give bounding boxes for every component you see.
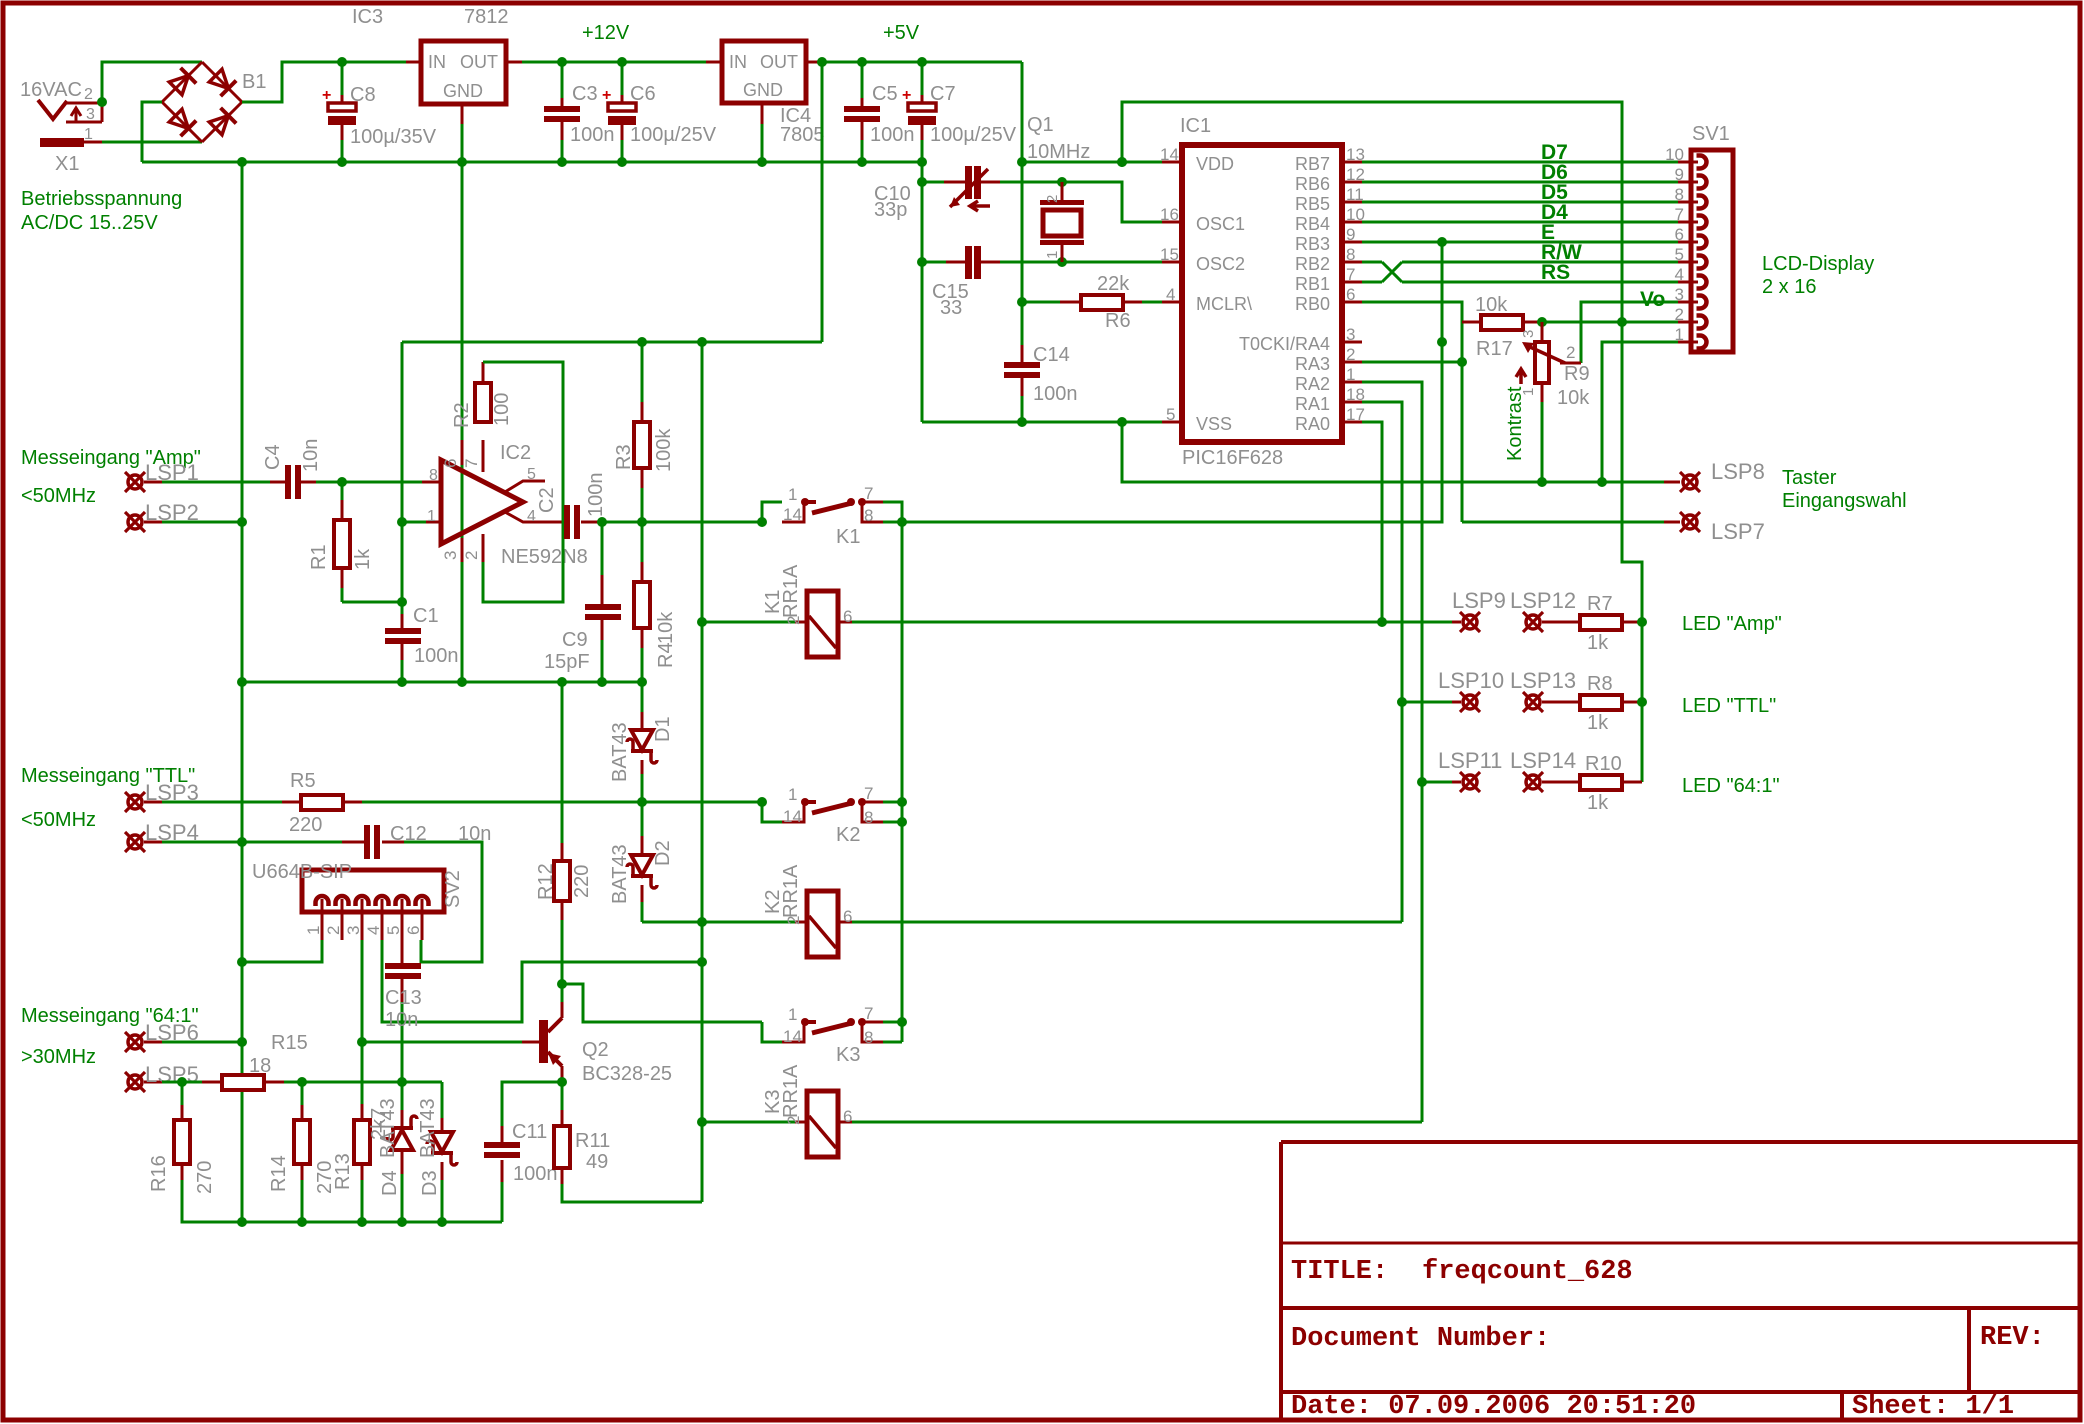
svg-text:TITLE:: TITLE: xyxy=(1291,1257,1388,1287)
svg-text:1: 1 xyxy=(1044,251,1061,259)
relay contact K1 xyxy=(762,502,782,522)
capacitor C3 100n xyxy=(557,57,567,67)
svg-text:+5V: +5V xyxy=(883,22,920,44)
wire C10 row OSC1 net xyxy=(922,181,944,184)
wire RA1 down xyxy=(1362,402,1402,922)
regulator IC4 7805 xyxy=(722,41,806,103)
wire LSP5 to clamp row xyxy=(162,1081,202,1084)
wire IC4 GND to rail xyxy=(761,103,764,124)
svg-text:RR1A: RR1A xyxy=(780,1064,802,1118)
resistor R4 10k xyxy=(641,522,644,562)
resistor R16 270 xyxy=(181,1082,184,1105)
wire bias vertical to IC2 pin1 xyxy=(401,342,404,602)
svg-text:Date: 07.09.2006 20:51:20: Date: 07.09.2006 20:51:20 xyxy=(1291,1392,1696,1422)
svg-text:C3: C3 xyxy=(572,83,598,105)
op-amp IC2 NE592N8 xyxy=(441,460,523,544)
capacitor C8 100u/35V xyxy=(337,57,347,67)
svg-text:1k: 1k xyxy=(1587,712,1609,734)
svg-text:Taster: Taster xyxy=(1782,467,1837,489)
resistor R17 10k xyxy=(1462,321,1481,324)
LED Amp row LSP9 xyxy=(1382,621,1452,624)
svg-text:3: 3 xyxy=(1520,330,1537,338)
svg-text:100n: 100n xyxy=(414,645,459,667)
svg-text:10n: 10n xyxy=(385,1009,418,1031)
svg-text:1k: 1k xyxy=(352,548,374,570)
svg-text:IN: IN xyxy=(729,52,747,72)
svg-text:R10: R10 xyxy=(1585,753,1622,775)
GND rail top xyxy=(142,161,922,164)
wire SV2 pin4 supply jog xyxy=(382,940,702,1022)
wire +5V down to VDD xyxy=(1022,62,1162,162)
wire SV1 pin2 +5V net xyxy=(1542,321,1678,324)
svg-text:BC328-25: BC328-25 xyxy=(582,1063,672,1085)
wire Vo net SV1 pin3 to pot wiper xyxy=(1581,302,1678,363)
svg-text:Betriebsspannung: Betriebsspannung xyxy=(21,188,182,210)
capacitor C6 100u/25V xyxy=(617,57,627,67)
svg-text:RS: RS xyxy=(1541,261,1570,284)
svg-text:RA3: RA3 xyxy=(1295,354,1330,374)
svg-text:R3: R3 xyxy=(613,444,635,470)
svg-text:RB4: RB4 xyxy=(1295,214,1330,234)
svg-text:10MHz: 10MHz xyxy=(1027,141,1090,163)
svg-text:LSP10: LSP10 xyxy=(1438,668,1504,693)
svg-text:GND: GND xyxy=(743,80,783,100)
wire D7 net RB7 to SV1 pin10 xyxy=(1362,161,1678,164)
svg-text:Sheet: 1/1: Sheet: 1/1 xyxy=(1852,1392,2014,1422)
svg-text:14: 14 xyxy=(1160,145,1179,164)
svg-text:100n: 100n xyxy=(870,124,915,146)
svg-text:<50MHz: <50MHz xyxy=(21,485,96,507)
wire X1 pin1 to bridge AC2 xyxy=(102,141,202,144)
svg-text:LSP7: LSP7 xyxy=(1711,519,1765,544)
svg-text:7: 7 xyxy=(864,484,873,503)
svg-text:BAT43: BAT43 xyxy=(417,1098,439,1158)
wire LSP1 to C4 xyxy=(162,481,270,484)
svg-text:15: 15 xyxy=(1160,245,1179,264)
svg-text:C6: C6 xyxy=(630,83,656,105)
IC2 pin3 pin2 stubs xyxy=(461,538,464,562)
title block frame xyxy=(1281,1140,2079,1144)
svg-text:D2: D2 xyxy=(652,840,674,866)
svg-text:3: 3 xyxy=(86,106,95,123)
wire bridge DC+ to +raw rail xyxy=(242,62,406,102)
diode D1 BAT43 xyxy=(641,682,644,712)
svg-text:OUT: OUT xyxy=(760,52,798,72)
svg-text:49: 49 xyxy=(586,1151,608,1173)
svg-text:2: 2 xyxy=(1566,343,1575,362)
capacitor C7 100u/25V xyxy=(917,57,927,67)
svg-text:10n: 10n xyxy=(300,439,322,472)
svg-text:RA0: RA0 xyxy=(1295,414,1330,434)
svg-text:Kontrast: Kontrast xyxy=(1504,386,1526,461)
svg-text:9: 9 xyxy=(1346,225,1355,244)
svg-text:LSP9: LSP9 xyxy=(1452,588,1506,613)
bottom GND rail xyxy=(182,1221,502,1224)
svg-text:6: 6 xyxy=(1675,225,1684,244)
solder pad LSP3 xyxy=(128,795,142,809)
svg-text:3: 3 xyxy=(1346,325,1355,344)
wire SV2 pin3 down xyxy=(361,940,364,1104)
svg-text:1: 1 xyxy=(84,126,93,143)
svg-text:R6: R6 xyxy=(1105,310,1131,332)
svg-text:R15: R15 xyxy=(271,1032,308,1054)
svg-text:6: 6 xyxy=(843,1107,852,1126)
wire R5 to K2 common xyxy=(362,801,762,804)
capacitor C1 100n xyxy=(401,602,404,630)
svg-text:<50MHz: <50MHz xyxy=(21,809,96,831)
+V vertical to relay coils xyxy=(701,342,704,1202)
svg-text:4: 4 xyxy=(1166,285,1175,304)
svg-text:100µ/25V: 100µ/25V xyxy=(930,124,1017,146)
svg-text:7: 7 xyxy=(462,459,481,468)
svg-text:IC1: IC1 xyxy=(1180,115,1211,137)
svg-text:C2: C2 xyxy=(536,487,558,513)
wire +5V to LED resistors xyxy=(1622,322,1642,782)
svg-text:8: 8 xyxy=(864,506,873,525)
resistor R1 1k xyxy=(341,482,344,500)
svg-text:OSC1: OSC1 xyxy=(1196,214,1245,234)
capacitor C14 100n xyxy=(1021,302,1024,364)
diode D4 BAT43 xyxy=(401,1082,404,1110)
svg-text:LCD-Display: LCD-Display xyxy=(1762,253,1874,275)
svg-text:4: 4 xyxy=(527,508,536,525)
svg-text:R9: R9 xyxy=(1564,363,1590,385)
IC2 pin4 output stub xyxy=(505,512,564,522)
svg-text:1: 1 xyxy=(427,508,436,525)
svg-text:270: 270 xyxy=(194,1161,216,1194)
svg-text:14: 14 xyxy=(783,505,802,524)
resistor R7 1k xyxy=(1542,621,1580,624)
wire SV2 pin1 to GND xyxy=(242,940,322,962)
svg-text:R2: R2 xyxy=(451,402,473,428)
svg-text:7805: 7805 xyxy=(780,124,825,146)
svg-text:C8: C8 xyxy=(350,84,376,106)
svg-text:IC2: IC2 xyxy=(500,442,531,464)
svg-text:R16: R16 xyxy=(148,1155,170,1192)
relay contact K2 xyxy=(762,802,782,822)
wire VDD top run to SV1 pin2 net xyxy=(1122,102,1622,322)
svg-text:10: 10 xyxy=(1665,145,1684,164)
node X1 pins 2-3 xyxy=(97,97,107,107)
wire IC2 output row xyxy=(602,521,762,524)
wire RA3 to LSP7 xyxy=(1462,521,1664,524)
svg-text:R4: R4 xyxy=(655,642,677,668)
IC1 right pin stubs xyxy=(1342,161,1362,164)
svg-text:8: 8 xyxy=(864,808,873,827)
svg-text:8: 8 xyxy=(1346,245,1355,264)
svg-text:10k: 10k xyxy=(655,611,677,644)
svg-text:C5: C5 xyxy=(872,83,898,105)
wire R/W net with crossover xyxy=(1362,261,1382,264)
solder pad LSP4 xyxy=(128,835,142,849)
svg-text:C11: C11 xyxy=(512,1121,547,1143)
svg-text:R5: R5 xyxy=(290,770,316,792)
capacitor C13 10n on pin5 xyxy=(401,940,404,965)
svg-text:2: 2 xyxy=(84,86,93,103)
svg-text:5: 5 xyxy=(384,926,403,935)
svg-text:SV2: SV2 xyxy=(442,870,464,908)
svg-text:100µ/35V: 100µ/35V xyxy=(350,126,437,148)
svg-text:2: 2 xyxy=(1044,195,1061,203)
solder pad LSP8 xyxy=(1664,481,1680,484)
IC2 pin6 pin7 stubs xyxy=(461,440,464,465)
svg-text:Vo: Vo xyxy=(1640,288,1665,311)
svg-text:8: 8 xyxy=(429,467,438,484)
wire D5 net xyxy=(1362,201,1678,204)
svg-text:2: 2 xyxy=(784,1116,803,1125)
diode D3 BAT43 xyxy=(441,1082,444,1118)
wire VSS row xyxy=(922,421,1162,424)
svg-text:1: 1 xyxy=(304,926,323,935)
resistor R11 49 xyxy=(561,1082,564,1110)
svg-text:2: 2 xyxy=(324,926,343,935)
svg-text:OSC2: OSC2 xyxy=(1196,254,1245,274)
wire IC3 GND to rail xyxy=(461,104,464,124)
svg-text:U664B-SIP: U664B-SIP xyxy=(252,861,352,883)
wire LSP4 to C12 xyxy=(162,841,342,844)
svg-text:4: 4 xyxy=(1675,265,1684,284)
svg-text:C4: C4 xyxy=(262,444,284,470)
wire C4 to pin8 node xyxy=(316,481,422,484)
svg-text:6: 6 xyxy=(843,607,852,626)
regulator IC3 7812 xyxy=(421,41,506,104)
svg-text:K1: K1 xyxy=(836,526,860,548)
svg-text:2 x 16: 2 x 16 xyxy=(1762,276,1816,298)
svg-text:100n: 100n xyxy=(585,473,607,518)
wire LSP3 to R5 xyxy=(162,801,282,804)
svg-text:K2: K2 xyxy=(836,824,860,846)
svg-text:C14: C14 xyxy=(1033,344,1070,366)
svg-text:VSS: VSS xyxy=(1196,414,1232,434)
wire LSP2 to GND vertical xyxy=(162,521,242,524)
mcu IC1 PIC16F628 xyxy=(1182,145,1342,442)
wire E net RB3 to SV1 pin6 xyxy=(1362,241,1678,244)
svg-text:2: 2 xyxy=(784,616,803,625)
+5V rail xyxy=(822,61,1022,64)
svg-text:BAT43: BAT43 xyxy=(609,844,631,904)
svg-text:22k: 22k xyxy=(1097,273,1130,295)
svg-text:LSP8: LSP8 xyxy=(1711,459,1765,484)
svg-text:16: 16 xyxy=(1160,205,1179,224)
svg-text:5: 5 xyxy=(527,466,536,483)
svg-text:100n: 100n xyxy=(570,124,615,146)
svg-text:7812: 7812 xyxy=(464,6,509,28)
svg-text:>30MHz: >30MHz xyxy=(21,1046,96,1068)
wire Q2 collector node xyxy=(561,1066,564,1082)
wire Q2 emitter to R12 xyxy=(561,1002,564,1018)
solder pad LSP6 xyxy=(128,1035,142,1049)
svg-text:R8: R8 xyxy=(1587,673,1613,695)
svg-text:R13: R13 xyxy=(332,1153,354,1190)
svg-text:R12: R12 xyxy=(535,863,557,900)
svg-text:X1: X1 xyxy=(55,153,79,175)
svg-text:1: 1 xyxy=(788,785,797,804)
svg-text:LED "64:1": LED "64:1" xyxy=(1682,775,1780,797)
capacitor C12 10n xyxy=(342,841,365,844)
svg-text:AC/DC 15..25V: AC/DC 15..25V xyxy=(21,212,158,234)
wire D6 net xyxy=(1362,181,1678,184)
svg-text:6: 6 xyxy=(404,926,423,935)
svg-text:OUT: OUT xyxy=(460,52,498,72)
wire +5V branch to R3 and relay coils xyxy=(821,62,824,342)
svg-text:5: 5 xyxy=(1675,245,1684,264)
svg-text:T0CKI/RA4: T0CKI/RA4 xyxy=(1239,334,1330,354)
wire RA3 row xyxy=(1362,361,1462,364)
diode D2 BAT43 xyxy=(641,802,644,836)
IC1 left pin stubs xyxy=(1162,161,1182,164)
svg-text:BAT43: BAT43 xyxy=(377,1098,399,1158)
capacitor C11 100n xyxy=(501,1182,504,1222)
svg-text:6: 6 xyxy=(1346,285,1355,304)
svg-text:C9: C9 xyxy=(562,629,588,651)
svg-text:RR1A: RR1A xyxy=(780,564,802,618)
relay contact K3 xyxy=(762,1022,782,1042)
wire K-switch common vertical xyxy=(901,522,904,1042)
svg-text:RB0: RB0 xyxy=(1295,294,1330,314)
svg-text:RB7: RB7 xyxy=(1295,154,1330,174)
svg-text:1: 1 xyxy=(788,485,797,504)
resistor R12 220 xyxy=(561,682,564,843)
trimmer capacitor C10 33p xyxy=(965,166,972,199)
svg-text:SV1: SV1 xyxy=(1692,123,1730,145)
node crystal pin2 xyxy=(1057,177,1067,187)
resistor R3 100k pullup xyxy=(641,342,644,402)
svg-text:R1: R1 xyxy=(308,544,330,570)
svg-text:3: 3 xyxy=(441,551,460,560)
wire RA0 down xyxy=(1362,422,1382,622)
wire bridge DC- to GND rail xyxy=(142,102,162,162)
svg-text:LED "TTL": LED "TTL" xyxy=(1682,695,1776,717)
svg-text:C7: C7 xyxy=(930,83,956,105)
svg-text:8: 8 xyxy=(1675,185,1684,204)
resistor R6 22k xyxy=(1022,301,1062,304)
resistor R15 18 xyxy=(202,1081,222,1084)
IC2 pin8 stub xyxy=(402,521,426,524)
svg-text:100: 100 xyxy=(491,393,513,426)
svg-text:100µ/25V: 100µ/25V xyxy=(630,124,717,146)
svg-text:+12V: +12V xyxy=(582,22,630,44)
solder pad LSP1 xyxy=(128,475,142,489)
svg-text:6: 6 xyxy=(843,907,852,926)
svg-text:freqcount_628: freqcount_628 xyxy=(1422,1257,1633,1287)
svg-text:BAT43: BAT43 xyxy=(609,722,631,782)
svg-text:LSP11: LSP11 xyxy=(1438,748,1502,773)
capacitor C9 15pF xyxy=(601,522,604,575)
capacitor C2 100n xyxy=(564,505,570,539)
main left GND vertical xyxy=(241,162,244,1222)
LED TTL row LSP10 xyxy=(1402,701,1452,704)
solder pad LSP5 xyxy=(128,1075,142,1089)
solder pad LSP2 xyxy=(128,515,142,529)
svg-text:D4: D4 xyxy=(379,1170,401,1196)
wire LSP6 to GND vertical xyxy=(162,1041,242,1044)
svg-text:Q1: Q1 xyxy=(1027,114,1054,136)
svg-text:LSP13: LSP13 xyxy=(1510,668,1576,693)
svg-text:7: 7 xyxy=(864,1004,873,1023)
svg-text:REV:: REV: xyxy=(1980,1323,2045,1353)
rectifier B1 bridge xyxy=(162,62,202,102)
svg-text:1k: 1k xyxy=(1587,632,1609,654)
svg-text:14: 14 xyxy=(783,807,802,826)
svg-text:R17: R17 xyxy=(1476,338,1513,360)
connector X1 16VAC jack xyxy=(38,100,67,119)
connector SV1 LCD header xyxy=(1691,150,1733,352)
svg-text:IC3: IC3 xyxy=(352,6,383,28)
wire +5V down to R6 and C14 xyxy=(1021,162,1024,302)
wire OSC2 to pin15 xyxy=(1062,261,1162,264)
svg-text:R7: R7 xyxy=(1587,593,1613,615)
svg-text:B1: B1 xyxy=(242,71,266,93)
svg-text:Q2: Q2 xyxy=(582,1039,609,1061)
capacitor C15 33 xyxy=(965,246,972,279)
resistor R8 1k xyxy=(1542,701,1580,704)
svg-text:+: + xyxy=(902,87,911,104)
wire C12 to SV2 pin6 xyxy=(404,842,482,962)
node VDD junction xyxy=(1117,157,1127,167)
wire VSS GND line to Taster and pot xyxy=(1122,422,1664,482)
clamp row wire xyxy=(284,1081,442,1084)
svg-text:VDD: VDD xyxy=(1196,154,1234,174)
svg-text:33: 33 xyxy=(940,297,962,319)
svg-text:16VAC: 16VAC xyxy=(20,79,82,101)
resistor R10 1k xyxy=(1542,781,1580,784)
svg-text:LSP14: LSP14 xyxy=(1510,748,1576,773)
svg-text:+: + xyxy=(602,87,611,104)
svg-text:RR1A: RR1A xyxy=(780,864,802,918)
svg-text:RA1: RA1 xyxy=(1295,394,1330,414)
resistor R2 100 feedback xyxy=(482,362,485,383)
svg-text:5: 5 xyxy=(1166,405,1175,424)
svg-text:2: 2 xyxy=(462,551,481,560)
relay coil K3 RR1A xyxy=(702,1121,795,1124)
svg-text:C1: C1 xyxy=(413,605,439,627)
IC2 pin1 stub xyxy=(426,521,441,524)
svg-text:3: 3 xyxy=(344,926,363,935)
+5V bias line xyxy=(402,341,822,344)
capacitor C5 100n xyxy=(857,57,867,67)
svg-text:100n: 100n xyxy=(513,1163,558,1185)
wire T0CKI counter input net xyxy=(902,242,1442,522)
svg-text:MCLR\: MCLR\ xyxy=(1196,294,1252,314)
svg-text:8: 8 xyxy=(864,1028,873,1047)
capacitor C4 10n xyxy=(270,481,286,484)
svg-text:RB5: RB5 xyxy=(1295,194,1330,214)
svg-text:RB6: RB6 xyxy=(1295,174,1330,194)
solder pad LSP12 xyxy=(1526,615,1540,629)
svg-text:D3: D3 xyxy=(419,1170,441,1196)
wire C15 row OSC2 net xyxy=(922,261,946,264)
svg-text:6: 6 xyxy=(441,459,460,468)
feedback loop wire pin7-R2-pin2 xyxy=(483,362,563,602)
wire X1 pin2 to bridge AC1 xyxy=(102,62,202,102)
wire OSC1 jog xyxy=(1062,182,1162,222)
svg-text:IN: IN xyxy=(428,52,446,72)
wire RB0 to node xyxy=(1362,302,1462,522)
wire R1 bottom to C1 node xyxy=(342,601,402,604)
svg-text:9: 9 xyxy=(1675,165,1684,184)
GND vertical through IC2 xyxy=(461,162,464,682)
svg-text:33p: 33p xyxy=(874,199,907,221)
relay coil K2 RR1A xyxy=(642,921,795,924)
svg-text:+: + xyxy=(322,87,331,104)
+12V rail xyxy=(522,61,706,64)
svg-text:4: 4 xyxy=(364,926,383,935)
svg-text:PIC16F628: PIC16F628 xyxy=(1182,447,1283,469)
node crystal pin1 xyxy=(1057,257,1067,267)
svg-text:7: 7 xyxy=(1346,265,1355,284)
svg-text:C13: C13 xyxy=(385,987,422,1009)
transistor Q2 BC328-25 xyxy=(539,1020,548,1063)
